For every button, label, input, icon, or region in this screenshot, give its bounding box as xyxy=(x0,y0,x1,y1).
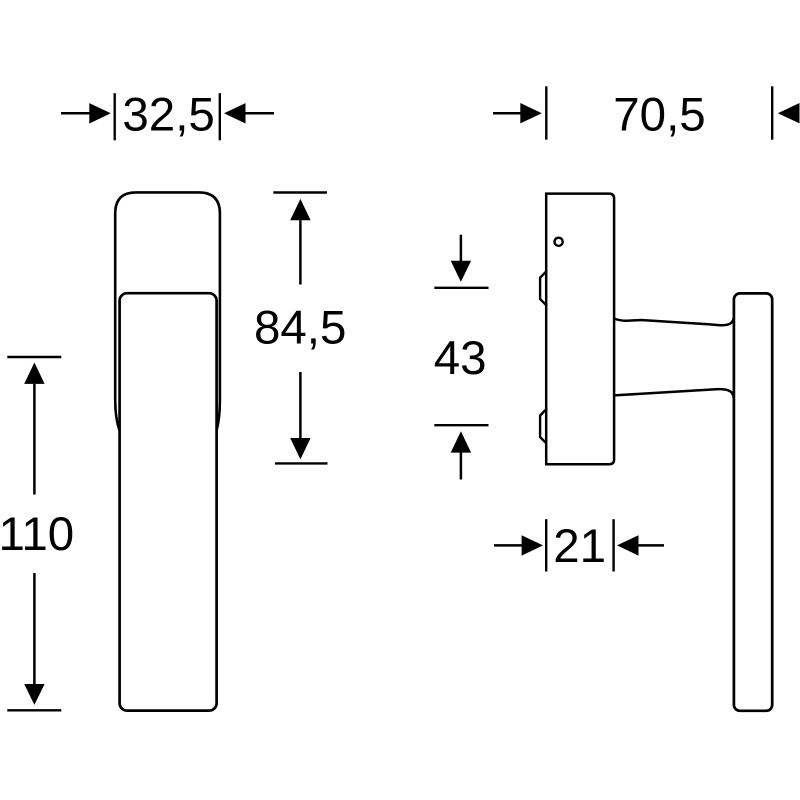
dim 21: right extension tick xyxy=(612,519,614,571)
dim 84,5: bottom arrow xyxy=(290,372,310,459)
svg-text:70,5: 70,5 xyxy=(613,89,705,142)
side view: grip bar xyxy=(734,293,772,710)
svg-text:110: 110 xyxy=(0,508,74,561)
dim 32,5: right arrow xyxy=(224,103,274,123)
dim 43: top extension tick xyxy=(434,287,488,289)
dim 21: left extension tick xyxy=(545,519,547,571)
dim 84,5: top extension tick xyxy=(273,191,327,193)
dim 43: bottom extension tick xyxy=(434,424,488,426)
dim 70,5: right arrow xyxy=(778,103,800,123)
front view: handle outer silhouette xyxy=(115,192,220,430)
side view: neck lower contour xyxy=(614,389,734,398)
dim 84,5: top arrow xyxy=(290,199,310,285)
dim 32,5: left arrow xyxy=(61,103,111,123)
dim 110: bottom extension tick xyxy=(7,709,61,711)
dim 21: left arrow xyxy=(494,535,543,555)
dim 110: top extension tick xyxy=(7,356,61,358)
dim 110: top arrow xyxy=(24,363,44,495)
svg-text:21: 21 xyxy=(553,520,606,573)
dim 84,5: bottom extension tick xyxy=(275,462,328,464)
svg-text:43: 43 xyxy=(434,332,487,385)
front view: grip face rounded rectangle xyxy=(120,293,217,710)
dim 32,5: left extension tick xyxy=(113,93,115,140)
side view: neck upper contour xyxy=(614,317,734,325)
dim 70,5: right extension tick xyxy=(771,86,773,139)
dim 32,5: right extension tick xyxy=(219,93,221,140)
dim 110: bottom arrow xyxy=(24,573,44,705)
side view: lower clip tab xyxy=(540,409,547,444)
svg-text:32,5: 32,5 xyxy=(122,89,214,142)
dim 43: top arrow xyxy=(451,235,471,282)
dim 70,5: left extension tick xyxy=(545,86,547,139)
svg-text:84,5: 84,5 xyxy=(254,302,346,355)
side view: upper clip tab xyxy=(540,271,547,306)
dim 43: bottom arrow xyxy=(451,431,471,479)
dim 70,5: left arrow xyxy=(493,103,542,123)
side view: mounting plate xyxy=(546,194,614,465)
side view: screw hole xyxy=(555,238,563,246)
dim 21: right arrow xyxy=(617,535,664,555)
